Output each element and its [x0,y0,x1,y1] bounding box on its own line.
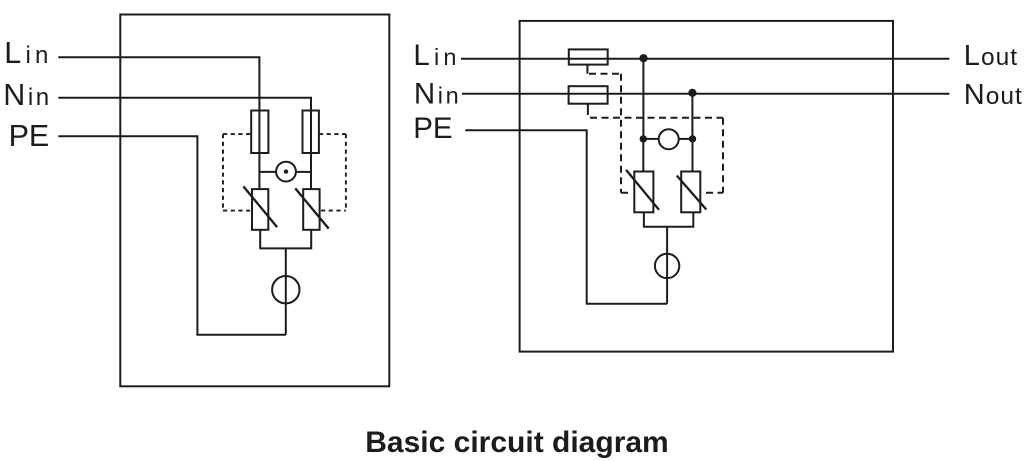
wire PE (left diagram) down and along bottom [58,136,285,334]
disconnect indicator circle (right diagram) [655,254,679,278]
fuse F1 (left diagram, vertical) [251,111,268,154]
junction dot on Nin line [688,89,696,97]
wire varistors to bottom join (left diagram) [260,230,311,249]
dashed module outline (left diagram) [223,134,346,211]
gas discharge tube G1 (circle with dot, left diagram) [276,162,296,182]
thermal tap below fuse F4 [587,104,589,115]
thermal tap below fuse F3 [586,65,588,74]
right enclosure box [520,21,893,352]
wire gas discharge tube to right node (right diagram) [679,138,693,140]
left enclosure box [120,15,389,387]
svg-text:Nin: Nin [3,78,52,112]
wire centre drop through circle (right diagram) [666,227,668,304]
wire left branch to gas discharge tube [259,171,276,173]
wire Nin-Nout (right diagram) [462,93,949,95]
wire PE (right diagram) down and along bottom [465,130,667,303]
wire varistors to bottom join (right diagram) [644,212,693,227]
svg-text:Nin: Nin [414,78,461,111]
varistor RV3 (right diagram) [626,170,659,212]
wire left branch fuse to varistor [258,153,260,189]
varistor RV1 (left diagram) [243,186,277,229]
junction dot on Lin line [639,54,647,62]
wire gas discharge tube to right branch [296,171,311,173]
wire node to gas discharge tube left (right diagram) [643,138,658,140]
gas discharge tube G2 (right diagram) [659,129,679,149]
dashed linkage and module outline (right diagram) [589,74,723,193]
fuse F4 (right diagram, horizontal, line N) [569,86,608,104]
wire Lin drop to node (right diagram) [642,59,644,139]
svg-text:PE: PE [9,119,50,153]
wire nodes down to varistors (right diagram) [643,139,692,172]
wire Lin-Lout (right diagram) [461,58,949,60]
svg-text:Basic circuit diagram: Basic circuit diagram [365,426,668,459]
svg-text:PE: PE [413,112,452,145]
wire centre drop to PE (left diagram) [285,248,287,334]
wire Lin (left diagram) from label to left fuse [58,57,259,110]
svg-text:Lout: Lout [964,40,1018,72]
node dot right (right diagram) [689,135,696,142]
disconnect indicator circle (left diagram) [272,276,299,303]
varistor RV4 (right diagram) [677,172,707,213]
wire Nin drop to node (right diagram) [691,94,693,139]
fuse F2 (left diagram, vertical) [303,111,319,154]
svg-text:Lin: Lin [413,39,460,72]
svg-text:Lin: Lin [4,36,52,70]
wire Nin (left diagram) from label to right fuse [58,98,311,111]
varistor RV2 (left diagram) [295,188,328,229]
fuse F3 (right diagram, horizontal, line L) [569,49,608,64]
node dot left (right diagram) [640,135,647,142]
svg-text:Nout: Nout [964,79,1023,111]
wire right branch fuse to varistor [310,153,312,189]
